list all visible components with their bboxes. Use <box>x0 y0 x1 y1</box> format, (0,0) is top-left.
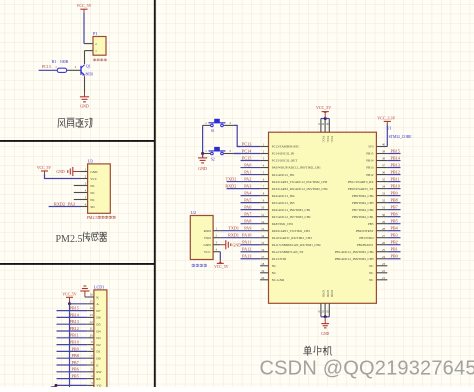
svg-text:PA3/UART2_RX/ADC12_IN3/TIM2_CH: PA3/UART2_RX/ADC12_IN3/TIM2_CH4 <box>272 187 328 191</box>
svg-text:PA13: PA13 <box>242 254 251 259</box>
svg-text:GND: GND <box>326 290 330 298</box>
svg-text:30: 30 <box>382 213 386 217</box>
svg-text:34: 34 <box>382 185 386 189</box>
svg-text:GND: GND <box>56 170 64 174</box>
svg-text:PB13: PB13 <box>391 162 400 167</box>
svg-text:PB1: PB1 <box>391 247 398 252</box>
svg-text:GND: GND <box>321 332 329 336</box>
svg-text:D3: D3 <box>96 336 100 340</box>
svg-text:PB4: PB4 <box>391 225 399 230</box>
svg-text:PB9: PB9 <box>72 346 79 351</box>
svg-text:E: E <box>96 363 98 367</box>
svg-text:PB13: PB13 <box>366 166 373 170</box>
svg-text:PA6/ADC12_IN6/TIM3_CH1: PA6/ADC12_IN6/TIM3_CH1 <box>272 208 311 212</box>
svg-text:GND: GND <box>80 104 89 109</box>
svg-text:PB12: PB12 <box>69 326 78 331</box>
svg-text:NC: NC <box>90 184 95 188</box>
svg-text:PC15/OSC32_OUT: PC15/OSC32_OUT <box>272 159 298 163</box>
svg-text:36: 36 <box>382 171 386 175</box>
svg-text:16: 16 <box>90 293 94 297</box>
svg-text:PC14/OSC32_IN: PC14/OSC32_IN <box>272 152 295 156</box>
svg-text:Q1: Q1 <box>86 65 91 69</box>
svg-text:NC: NC <box>90 191 95 195</box>
svg-text:PB3: PB3 <box>391 233 398 238</box>
svg-text:22: 22 <box>382 269 386 273</box>
svg-text:33: 33 <box>382 192 386 196</box>
svg-text:PA9/UART1_TX/TIM1_CH2: PA9/UART1_TX/TIM1_CH2 <box>272 229 311 233</box>
svg-text:PC15: PC15 <box>242 155 251 160</box>
svg-text:29: 29 <box>382 220 386 224</box>
svg-text:NC-GND: NC-GND <box>272 278 285 282</box>
svg-text:VCC_5V: VCC_5V <box>316 105 331 110</box>
svg-text:PA7: PA7 <box>244 211 251 216</box>
svg-text:PA4/ADC12_IN4: PA4/ADC12_IN4 <box>272 194 295 198</box>
svg-text:12: 12 <box>261 220 265 224</box>
svg-text:PA8: PA8 <box>244 218 251 223</box>
svg-text:PB10: PB10 <box>391 183 400 188</box>
svg-text:CSDN @QQ2193276455: CSDN @QQ2193276455 <box>260 358 474 380</box>
svg-text:VCC_5V: VCC_5V <box>214 265 229 269</box>
svg-text:12: 12 <box>90 320 94 324</box>
svg-text:NC: NC <box>369 278 373 282</box>
svg-text:15: 15 <box>90 299 94 303</box>
svg-text:NC: NC <box>272 264 276 268</box>
svg-text:PB12: PB12 <box>391 169 400 174</box>
svg-text:3V3: 3V3 <box>368 145 374 149</box>
svg-text:PB5: PB5 <box>391 218 398 223</box>
svg-text:PC13/TAMPER-RTC: PC13/TAMPER-RTC <box>272 145 300 149</box>
svg-text:31: 31 <box>382 206 386 210</box>
svg-text:PC14: PC14 <box>242 148 252 153</box>
svg-text:PA3: PA3 <box>244 183 251 188</box>
svg-text:PB7: PB7 <box>391 204 398 209</box>
svg-text:D5: D5 <box>96 323 100 327</box>
svg-text:VCC_5V: VCC_5V <box>76 3 91 8</box>
svg-text:38: 38 <box>382 157 386 161</box>
svg-text:PC13: PC13 <box>242 141 251 146</box>
svg-text:PB7: PB7 <box>72 360 79 365</box>
svg-text:PA5: PA5 <box>244 197 251 202</box>
svg-text:PA13/JTDI: PA13/JTDI <box>272 257 286 261</box>
svg-text:TXD1: TXD1 <box>228 225 239 230</box>
svg-text:PB11: PB11 <box>391 176 400 181</box>
svg-text:24: 24 <box>382 255 386 259</box>
svg-text:PB9: PB9 <box>391 190 398 195</box>
svg-text:PB6: PB6 <box>72 367 79 372</box>
svg-text:PB11: PB11 <box>70 333 79 338</box>
svg-text:P1: P1 <box>93 31 97 36</box>
svg-text:RW: RW <box>96 370 102 374</box>
svg-text:PB12: PB12 <box>366 173 373 177</box>
svg-text:PB8: PB8 <box>72 353 79 358</box>
svg-text:PB0/ADC12_IN8/TIM3_CH3: PB0/ADC12_IN8/TIM3_CH3 <box>335 257 374 261</box>
svg-text:D4: D4 <box>96 329 100 333</box>
svg-text:16: 16 <box>261 248 265 252</box>
svg-text:37: 37 <box>382 164 386 168</box>
svg-text:19: 19 <box>261 269 265 273</box>
svg-text:VCC: VCC <box>322 136 326 143</box>
svg-text:13: 13 <box>90 313 94 317</box>
svg-text:PA4: PA4 <box>244 190 252 195</box>
svg-text:11: 11 <box>261 213 264 217</box>
svg-text:PB10: PB10 <box>69 340 78 345</box>
svg-text:PA6: PA6 <box>244 204 251 209</box>
svg-text:14: 14 <box>261 234 265 238</box>
svg-text:RXD1: RXD1 <box>228 233 239 238</box>
svg-text:PB5: PB5 <box>368 222 374 226</box>
svg-text:PB6/TIM4_CH1: PB6/TIM4_CH1 <box>352 215 374 219</box>
svg-text:STM32_CORE: STM32_CORE <box>389 135 413 139</box>
svg-text:RXD: RXD <box>204 229 212 233</box>
svg-text:LCD1: LCD1 <box>94 285 104 290</box>
svg-text:PC13: PC13 <box>42 64 51 69</box>
svg-text:25: 25 <box>382 248 386 252</box>
svg-text:RXD2: RXD2 <box>54 201 65 206</box>
svg-text:PB4/NJTRST: PB4/NJTRST <box>356 229 374 233</box>
svg-text:PA2: PA2 <box>244 176 251 181</box>
svg-text:VCC: VCC <box>330 136 334 143</box>
svg-text:D7: D7 <box>96 309 100 313</box>
svg-text:R1: R1 <box>52 60 57 64</box>
svg-text:NC: NC <box>272 271 276 275</box>
svg-text:PA9: PA9 <box>244 225 251 230</box>
svg-text:PA2/UART2_TX/ADC12_IN2/TIM2_CH: PA2/UART2_TX/ADC12_IN2/TIM2_CH3 <box>272 180 328 184</box>
svg-text:PA0/WKUP/ADC12_IN0/TIM2_CH1: PA0/WKUP/ADC12_IN0/TIM2_CH1 <box>272 166 321 170</box>
svg-text:32: 32 <box>382 199 386 203</box>
svg-text:PB10/USART3_TX: PB10/USART3_TX <box>348 187 374 191</box>
svg-text:GND: GND <box>233 242 242 247</box>
svg-text:8050: 8050 <box>86 72 94 76</box>
svg-text:100R: 100R <box>60 60 69 64</box>
svg-text:18: 18 <box>261 262 265 266</box>
svg-text:PA1/ADC12_IN1: PA1/ADC12_IN1 <box>272 173 295 177</box>
svg-text:U1: U1 <box>387 126 392 131</box>
svg-text:21: 21 <box>382 276 386 280</box>
svg-text:PA0: PA0 <box>244 162 251 167</box>
svg-text:28: 28 <box>382 227 386 231</box>
svg-text:RXD2: RXD2 <box>225 183 236 188</box>
svg-text:PB0: PB0 <box>391 254 398 259</box>
svg-text:PB3/JTDO: PB3/JTDO <box>359 236 374 240</box>
svg-text:35: 35 <box>382 178 386 182</box>
svg-text:VCC_3.3V: VCC_3.3V <box>377 115 395 120</box>
svg-text:D2: D2 <box>96 343 100 347</box>
svg-text:PB1/ADC12_IN9/TIM3_CH4: PB1/ADC12_IN9/TIM3_CH4 <box>335 250 374 254</box>
svg-text:PA3: PA3 <box>68 201 75 206</box>
svg-text:PB15: PB15 <box>366 152 373 156</box>
svg-text:PA11: PA11 <box>242 240 251 245</box>
svg-text:VCC_5V: VCC_5V <box>62 293 77 297</box>
svg-text:PA10: PA10 <box>242 233 251 238</box>
svg-text:VCC: VCC <box>204 250 212 254</box>
svg-text:VCC_5V: VCC_5V <box>37 166 52 170</box>
svg-text:PB15: PB15 <box>391 148 400 153</box>
svg-text:PA12: PA12 <box>242 247 251 252</box>
svg-text:PB15: PB15 <box>69 306 78 311</box>
svg-text:PA7/ADC12_IN7/TIM3_CH2: PA7/ADC12_IN7/TIM3_CH2 <box>272 215 311 219</box>
svg-text:RS: RS <box>96 377 100 381</box>
svg-text:PA12/USBDP/CAN_TX: PA12/USBDP/CAN_TX <box>272 250 304 254</box>
svg-text:TXD2: TXD2 <box>226 176 237 181</box>
svg-text:PB8: PB8 <box>391 197 398 202</box>
svg-text:GND: GND <box>90 170 98 174</box>
svg-text:13: 13 <box>261 227 265 231</box>
svg-text:GND: GND <box>203 243 211 247</box>
svg-text:PB11/USART3_RX: PB11/USART3_RX <box>348 180 374 184</box>
svg-text:PB14: PB14 <box>69 312 79 317</box>
svg-text:17: 17 <box>261 255 265 259</box>
svg-text:GND: GND <box>322 290 326 298</box>
svg-text:PB14: PB14 <box>391 155 401 160</box>
svg-text:D6: D6 <box>96 316 100 320</box>
svg-text:VCC: VCC <box>90 177 98 181</box>
svg-text:PA10/UART1_RX/TIM1_CH3: PA10/UART1_RX/TIM1_CH3 <box>272 236 312 240</box>
svg-text:PB13: PB13 <box>69 319 78 324</box>
svg-text:40: 40 <box>382 143 386 147</box>
svg-text:PA1: PA1 <box>244 169 251 174</box>
svg-text:PM2.5: PM2.5 <box>87 215 98 220</box>
svg-text:D1: D1 <box>96 350 100 354</box>
svg-text:10: 10 <box>90 333 94 337</box>
svg-text:39: 39 <box>382 150 386 154</box>
svg-text:S2: S2 <box>211 157 215 161</box>
svg-text:11: 11 <box>90 327 93 331</box>
svg-text:NC: NC <box>90 198 95 202</box>
svg-text:PA11/USBDM/CAN_RX/TIM1_CH4: PA11/USBDM/CAN_RX/TIM1_CH4 <box>272 243 321 247</box>
svg-text:PB9/TIM4_CH4: PB9/TIM4_CH4 <box>352 194 374 198</box>
svg-text:PM2.5: PM2.5 <box>56 234 83 245</box>
svg-text:PB8/TIM4_CH3: PB8/TIM4_CH3 <box>352 201 374 205</box>
svg-text:PB6: PB6 <box>391 211 398 216</box>
svg-text:GND: GND <box>198 166 207 171</box>
svg-text:D0: D0 <box>96 357 100 361</box>
svg-text:15: 15 <box>261 241 265 245</box>
svg-text:GND: GND <box>330 290 334 298</box>
svg-text:S1: S1 <box>211 129 215 133</box>
svg-text:PB5: PB5 <box>72 374 79 379</box>
svg-text:PA5/ADC12_IN5: PA5/ADC12_IN5 <box>272 201 295 205</box>
svg-text:20: 20 <box>261 276 265 280</box>
svg-text:PB2: PB2 <box>391 240 398 245</box>
svg-text:NC: NC <box>369 271 373 275</box>
svg-text:26: 26 <box>382 241 386 245</box>
svg-text:PA8/TIM1_CH1: PA8/TIM1_CH1 <box>272 222 294 226</box>
svg-text:U3: U3 <box>88 158 93 163</box>
svg-text:U2: U2 <box>191 210 196 215</box>
svg-text:PB2/BOOT1: PB2/BOOT1 <box>357 243 374 247</box>
svg-text:PB7/TIM4_CH2: PB7/TIM4_CH2 <box>352 208 374 212</box>
svg-text:PB14: PB14 <box>366 159 373 163</box>
svg-text:14: 14 <box>90 306 94 310</box>
svg-text:NC: NC <box>369 264 373 268</box>
svg-text:10: 10 <box>261 206 265 210</box>
svg-text:23: 23 <box>382 262 386 266</box>
svg-text:VCC: VCC <box>326 136 330 143</box>
svg-text:TXD: TXD <box>204 236 212 240</box>
svg-text:SD: SD <box>90 205 95 209</box>
svg-text:27: 27 <box>382 234 386 238</box>
